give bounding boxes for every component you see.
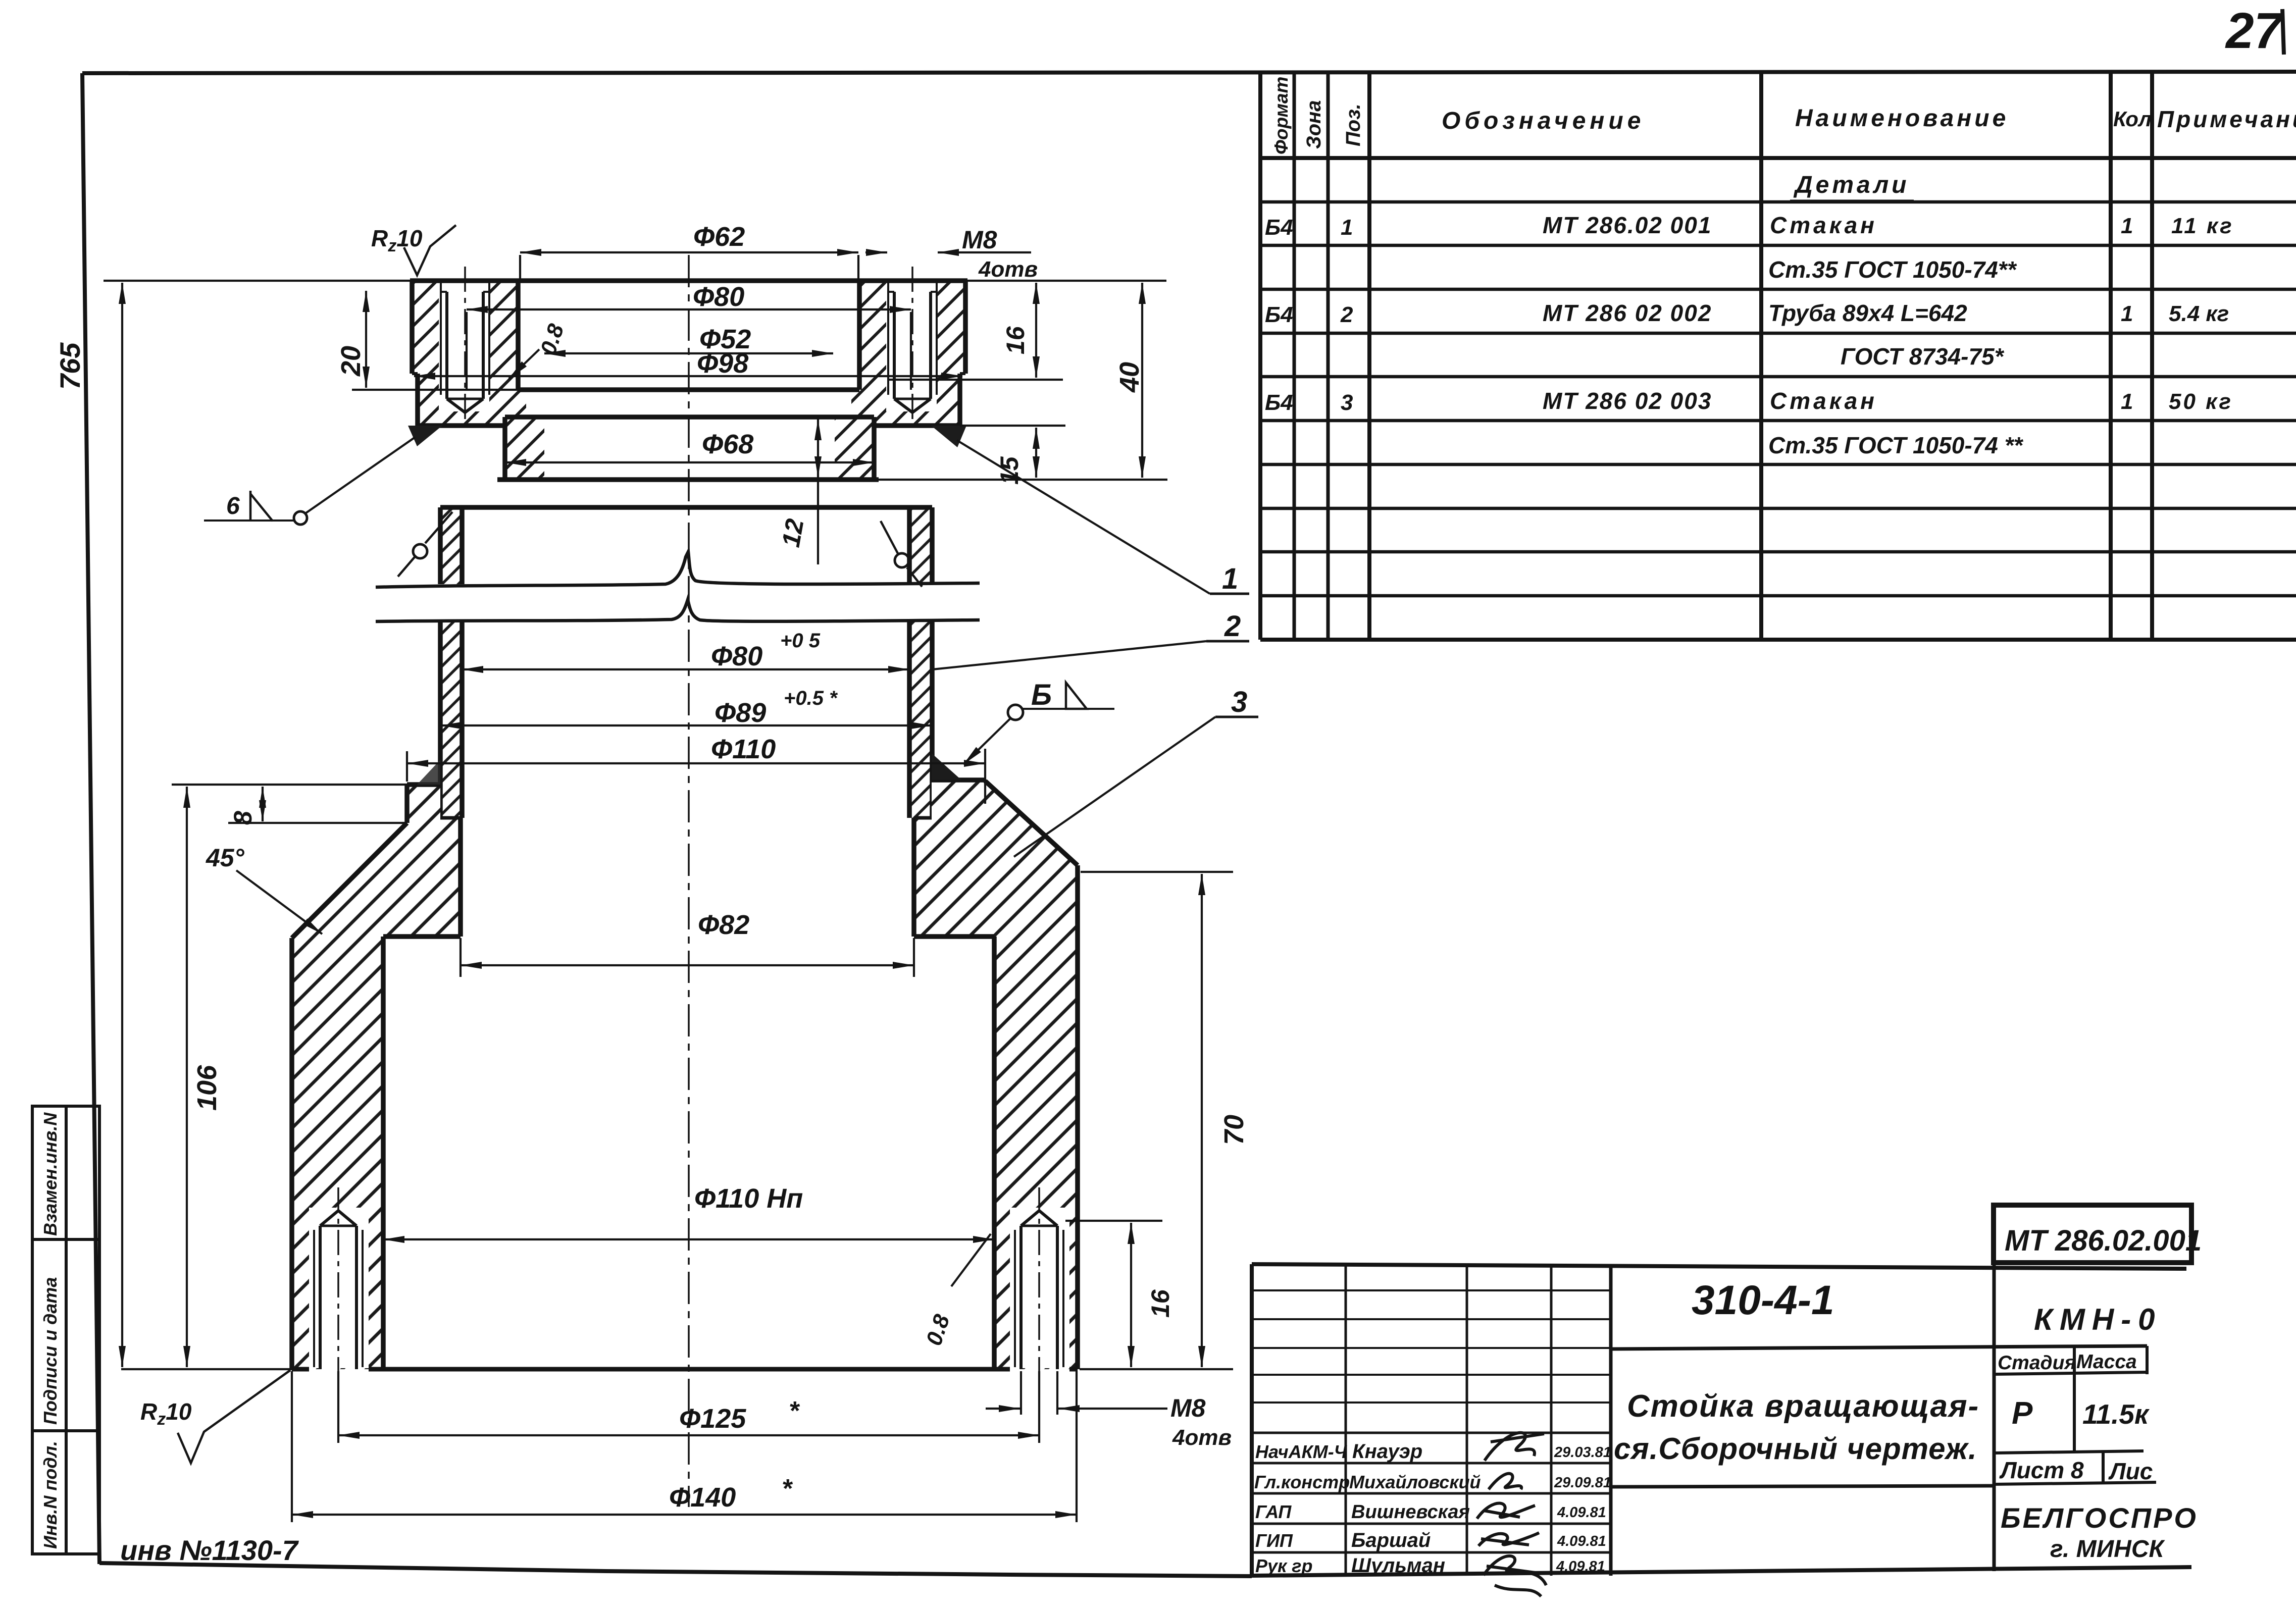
svg-text:2: 2: [1340, 302, 1353, 327]
svg-text:Кол: Кол: [2113, 107, 2152, 131]
svg-text:Вишневская: Вишневская: [1351, 1501, 1470, 1523]
svg-text:Ф125: Ф125: [679, 1404, 746, 1434]
svg-text:4.09.81: 4.09.81: [1557, 1504, 1606, 1521]
svg-text:Ф80: Ф80: [711, 641, 762, 671]
extension of cup top surface to the right: [965, 280, 1166, 282]
weld symbol 6 circle: [294, 511, 307, 525]
svg-text:Рук гр: Рук гр: [1255, 1555, 1312, 1576]
svg-text:Лист 8: Лист 8: [1999, 1457, 2084, 1483]
tube poz.2: outline: [440, 507, 932, 818]
svg-text:4отв: 4отв: [978, 257, 1038, 282]
extension for dim 8 bottom: [228, 822, 407, 824]
lower cup poz.3: hatched section right: [914, 780, 1078, 1369]
svg-text:106: 106: [192, 1065, 222, 1111]
dim f110 neck line: [407, 762, 985, 764]
svg-text:310-4-1: 310-4-1: [1692, 1277, 1834, 1323]
svg-text:Ст.35 ГОСТ 1050-74 **: Ст.35 ГОСТ 1050-74 **: [1768, 432, 2023, 458]
svg-text:г. МИНСК: г. МИНСК: [2050, 1536, 2165, 1563]
upper cup poz.1: hatched spigot ring walls: [505, 417, 544, 480]
centerline M8 hole bottom left: [337, 1187, 339, 1403]
svg-text:ся.Сборочный чертеж.: ся.Сборочный чертеж.: [1614, 1432, 1977, 1466]
svg-text:Ф82: Ф82: [698, 910, 749, 940]
svg-text:Ф80: Ф80: [693, 282, 744, 312]
centerline M8 hole bottom right: [1038, 1187, 1040, 1403]
svg-text:Гл.констр: Гл.констр: [1254, 1472, 1350, 1492]
svg-text:Rz10: Rz10: [140, 1398, 192, 1429]
dim 765 line: [121, 283, 123, 1367]
svg-text:3: 3: [1231, 686, 1247, 718]
dim f98 line: [414, 375, 962, 377]
svg-text:70: 70: [1219, 1115, 1249, 1145]
svg-text:Ф98: Ф98: [697, 348, 748, 379]
svg-text:Примечание: Примечание: [2157, 106, 2296, 132]
svg-text:МТ 286.02 001: МТ 286.02 001: [1543, 212, 1712, 238]
dim 106 line: [186, 787, 188, 1367]
svg-text:16: 16: [1001, 326, 1030, 354]
svg-text:2: 2: [1224, 610, 1241, 643]
svg-text:15: 15: [995, 456, 1024, 485]
svg-text:Б4: Б4: [1265, 390, 1293, 415]
svg-text:МТ 286 02 003: МТ 286 02 003: [1543, 388, 1712, 414]
svg-text:Инв.N подл.: Инв.N подл.: [40, 1441, 61, 1549]
svg-text:НачАКМ-Ч: НачАКМ-Ч: [1255, 1441, 1348, 1462]
svg-text:40: 40: [1114, 362, 1145, 393]
upper cup poz.1: hatched flange wall right: [851, 281, 965, 426]
svg-text:Масса: Масса: [2076, 1351, 2137, 1373]
dim 15: line and extension: [960, 425, 1065, 427]
svg-text:1: 1: [1341, 215, 1353, 240]
svg-text:Ф140: Ф140: [669, 1482, 736, 1513]
dim f82 line: [461, 964, 914, 966]
svg-text:27: 27: [2225, 3, 2284, 59]
callout leader 2: [932, 641, 1206, 669]
extension of lower cup bottom face to the left: [121, 1368, 292, 1370]
svg-text:Ф110: Ф110: [711, 734, 776, 764]
svg-text:Наименование: Наименование: [1795, 105, 2009, 132]
svg-text:инв №1130-7: инв №1130-7: [120, 1534, 299, 1566]
dim 12 line: [817, 419, 819, 478]
weld seam at cup flange right corner: [931, 426, 966, 447]
frame bottom border line: [99, 1563, 1252, 1576]
svg-text:Обозначение: Обозначение: [1442, 108, 1645, 134]
M8 tapped hole top left: [441, 283, 489, 412]
svg-text:МТ 286 02 002: МТ 286 02 002: [1543, 300, 1712, 326]
svg-text:4.09.81: 4.09.81: [1556, 1559, 1605, 1575]
dim M8 bottom arrows: [986, 1408, 1020, 1410]
frame top border line: [82, 72, 2296, 73]
svg-text:Подписи и дата: Подписи и дата: [40, 1277, 61, 1425]
svg-text:45°: 45°: [206, 844, 245, 872]
svg-text:11 кг: 11 кг: [2171, 214, 2234, 238]
M8 tapped hole bottom left: [314, 1211, 363, 1369]
weld leader 6: [306, 437, 415, 513]
weld seam at lower cup neck right: [932, 753, 961, 780]
dim f89+0.5 line: [440, 724, 932, 726]
leader 0.8 top: [509, 349, 539, 379]
svg-text:Б: Б: [1031, 679, 1052, 711]
svg-text:11.5к: 11.5к: [2082, 1398, 2150, 1430]
svg-text:Формат: Формат: [1271, 77, 1292, 154]
svg-text:М8: М8: [962, 226, 997, 254]
dim 16 bottom: line and extension: [1065, 1220, 1162, 1222]
dim M8 4otv arrows top: [865, 251, 887, 253]
leader 0.8 bottom: [951, 1234, 991, 1286]
svg-text:+0.5 *: +0.5 *: [784, 687, 838, 709]
svg-text:Р: Р: [2012, 1396, 2033, 1431]
svg-text:ГОСТ 8734-75*: ГОСТ 8734-75*: [1841, 343, 2005, 370]
dim 8 line: [262, 787, 264, 821]
svg-text:29.03.81: 29.03.81: [1554, 1444, 1611, 1461]
svg-text:3: 3: [1341, 390, 1353, 415]
svg-text:Стакан: Стакан: [1770, 212, 1877, 238]
leader 45 deg: [236, 870, 322, 934]
weld symbol 6 flag: [250, 491, 273, 521]
svg-text:29.09.81: 29.09.81: [1554, 1475, 1611, 1491]
svg-text:Кнауэр: Кнауэр: [1352, 1440, 1422, 1463]
svg-text:Взамен.инв.N: Взамен.инв.N: [40, 1112, 61, 1236]
dim f52 line: [544, 352, 833, 354]
svg-text:1: 1: [2121, 301, 2133, 326]
svg-text:Б4: Б4: [1265, 302, 1293, 327]
svg-text:4.09.81: 4.09.81: [1557, 1533, 1606, 1549]
surface mark circle-flag on tube right: [881, 521, 922, 587]
dim f68 line: [505, 461, 874, 463]
tube poz.2: hatched walls: [440, 507, 462, 584]
svg-text:Ст.35 ГОСТ 1050-74**: Ст.35 ГОСТ 1050-74**: [1768, 256, 2017, 283]
svg-text:1: 1: [2121, 389, 2133, 414]
extension for dim 20 bottom (inner shoulder): [352, 389, 518, 391]
extension of neck top face to the left: [172, 784, 407, 786]
frame left border line: [82, 73, 99, 1564]
svg-text:1: 1: [1222, 562, 1238, 595]
M8 hole bottom left: white cut: [309, 1208, 369, 1368]
dim f140 line: [292, 1514, 1077, 1516]
svg-text:ГИП: ГИП: [1255, 1530, 1293, 1551]
svg-text:50 кг: 50 кг: [2169, 389, 2233, 414]
callout leader 3: [1014, 717, 1215, 857]
svg-text:Труба 89х4 L=642: Труба 89х4 L=642: [1768, 300, 1967, 326]
lower cup poz.3: outline: [292, 780, 1078, 1369]
M8 hole bottom right: white cut: [1010, 1208, 1069, 1368]
svg-text:Стакан: Стакан: [1770, 388, 1877, 414]
surface mark circle-flag on tube left: [398, 512, 452, 577]
svg-text:5.4 кг: 5.4 кг: [2169, 301, 2229, 326]
main vertical centerline: [688, 255, 690, 1507]
weld seam at lower cup neck left: [417, 760, 440, 785]
dim 40: line and extensions: [879, 479, 1167, 481]
svg-text:ГАП: ГАП: [1255, 1501, 1292, 1522]
svg-text:8: 8: [229, 811, 257, 825]
svg-text:Зона: Зона: [1303, 100, 1325, 149]
svg-text:6: 6: [226, 493, 240, 520]
svg-text:16: 16: [1146, 1289, 1175, 1318]
document stamp box MT 286.02.001: [1994, 1205, 2202, 1263]
tube break lines: [376, 552, 980, 621]
dim f80+0.5 line: [462, 668, 909, 670]
svg-text:Шульман: Шульман: [1351, 1554, 1445, 1577]
svg-text:КМН-0: КМН-0: [2034, 1303, 2162, 1336]
dim 20 line: [365, 291, 367, 388]
signatures squiggles: [1477, 1433, 1546, 1596]
tick right of page number: [2282, 9, 2284, 55]
dim 70: line and extensions: [1081, 871, 1233, 873]
svg-text:Rz10: Rz10: [371, 225, 423, 255]
dim 16 top: line and extension: [889, 379, 1063, 381]
dim f62 line: [520, 251, 858, 253]
DIMS: [104, 252, 1258, 1522]
B view circle: [1008, 705, 1023, 720]
svg-text:Б4: Б4: [1265, 215, 1293, 240]
svg-text:Ф68: Ф68: [702, 429, 753, 459]
svg-text:Стадия: Стадия: [1998, 1352, 2076, 1374]
M8 tapped hole bottom right: [1015, 1211, 1063, 1369]
dim f125 line: [338, 1434, 1039, 1436]
dim f80 line: [467, 308, 911, 310]
callout leader 1: [957, 440, 1210, 594]
svg-text:Лис: Лис: [2108, 1458, 2153, 1484]
svg-text:Ф110 Нп: Ф110 Нп: [694, 1183, 803, 1214]
svg-text:765: 765: [54, 342, 86, 390]
svg-text:Баршай: Баршай: [1351, 1529, 1431, 1551]
svg-text:+0 5: +0 5: [780, 630, 821, 652]
svg-text:Ф89: Ф89: [715, 698, 766, 728]
svg-text:20: 20: [336, 346, 366, 377]
centerline M8 hole top right: [911, 267, 913, 425]
svg-text:*: *: [782, 1474, 793, 1503]
svg-text:МТ 286.02.001: МТ 286.02.001: [2005, 1224, 2202, 1257]
title block grid: [1252, 1264, 2191, 1576]
dim f110Np line: [383, 1238, 994, 1240]
svg-text:БЕЛГОСПРО: БЕЛГОСПРО: [2001, 1502, 2198, 1534]
svg-text:12: 12: [777, 516, 809, 549]
B view leader: [963, 719, 1010, 764]
svg-text:Поз.: Поз.: [1342, 103, 1364, 146]
extension of cup top surface to the left: [104, 280, 412, 282]
weld seam at cup flange left corner: [408, 426, 442, 446]
roughness mark Rz10 top: [404, 225, 456, 275]
upper cup poz.1: outline: [410, 281, 967, 480]
specification table grid: [1260, 73, 2296, 640]
svg-text:*: *: [789, 1396, 800, 1426]
svg-text:1: 1: [2121, 214, 2133, 238]
svg-text:Ф62: Ф62: [693, 222, 745, 252]
left margin stamp boxes: [32, 1106, 99, 1554]
M8 hole top left: white cut: [439, 279, 489, 411]
M8 tapped hole top right: [888, 283, 937, 412]
svg-text:Михайловский: Михайловский: [1349, 1472, 1481, 1492]
svg-text:Стойка вращающая-: Стойка вращающая-: [1627, 1389, 1979, 1424]
B view flag triangle: [1066, 683, 1087, 709]
roughness mark Rz10 bottom with leader: [178, 1370, 290, 1463]
M8 hole top right: white cut: [886, 279, 937, 411]
lower cup poz.3: hatched section left: [292, 785, 461, 1369]
centerline M8 hole top left: [464, 267, 466, 425]
svg-text:М8: М8: [1170, 1394, 1206, 1422]
svg-text:Детали: Детали: [1793, 172, 1910, 198]
svg-text:4отв: 4отв: [1172, 1425, 1232, 1450]
upper cup poz.1: hatched flange wall left: [412, 281, 526, 426]
